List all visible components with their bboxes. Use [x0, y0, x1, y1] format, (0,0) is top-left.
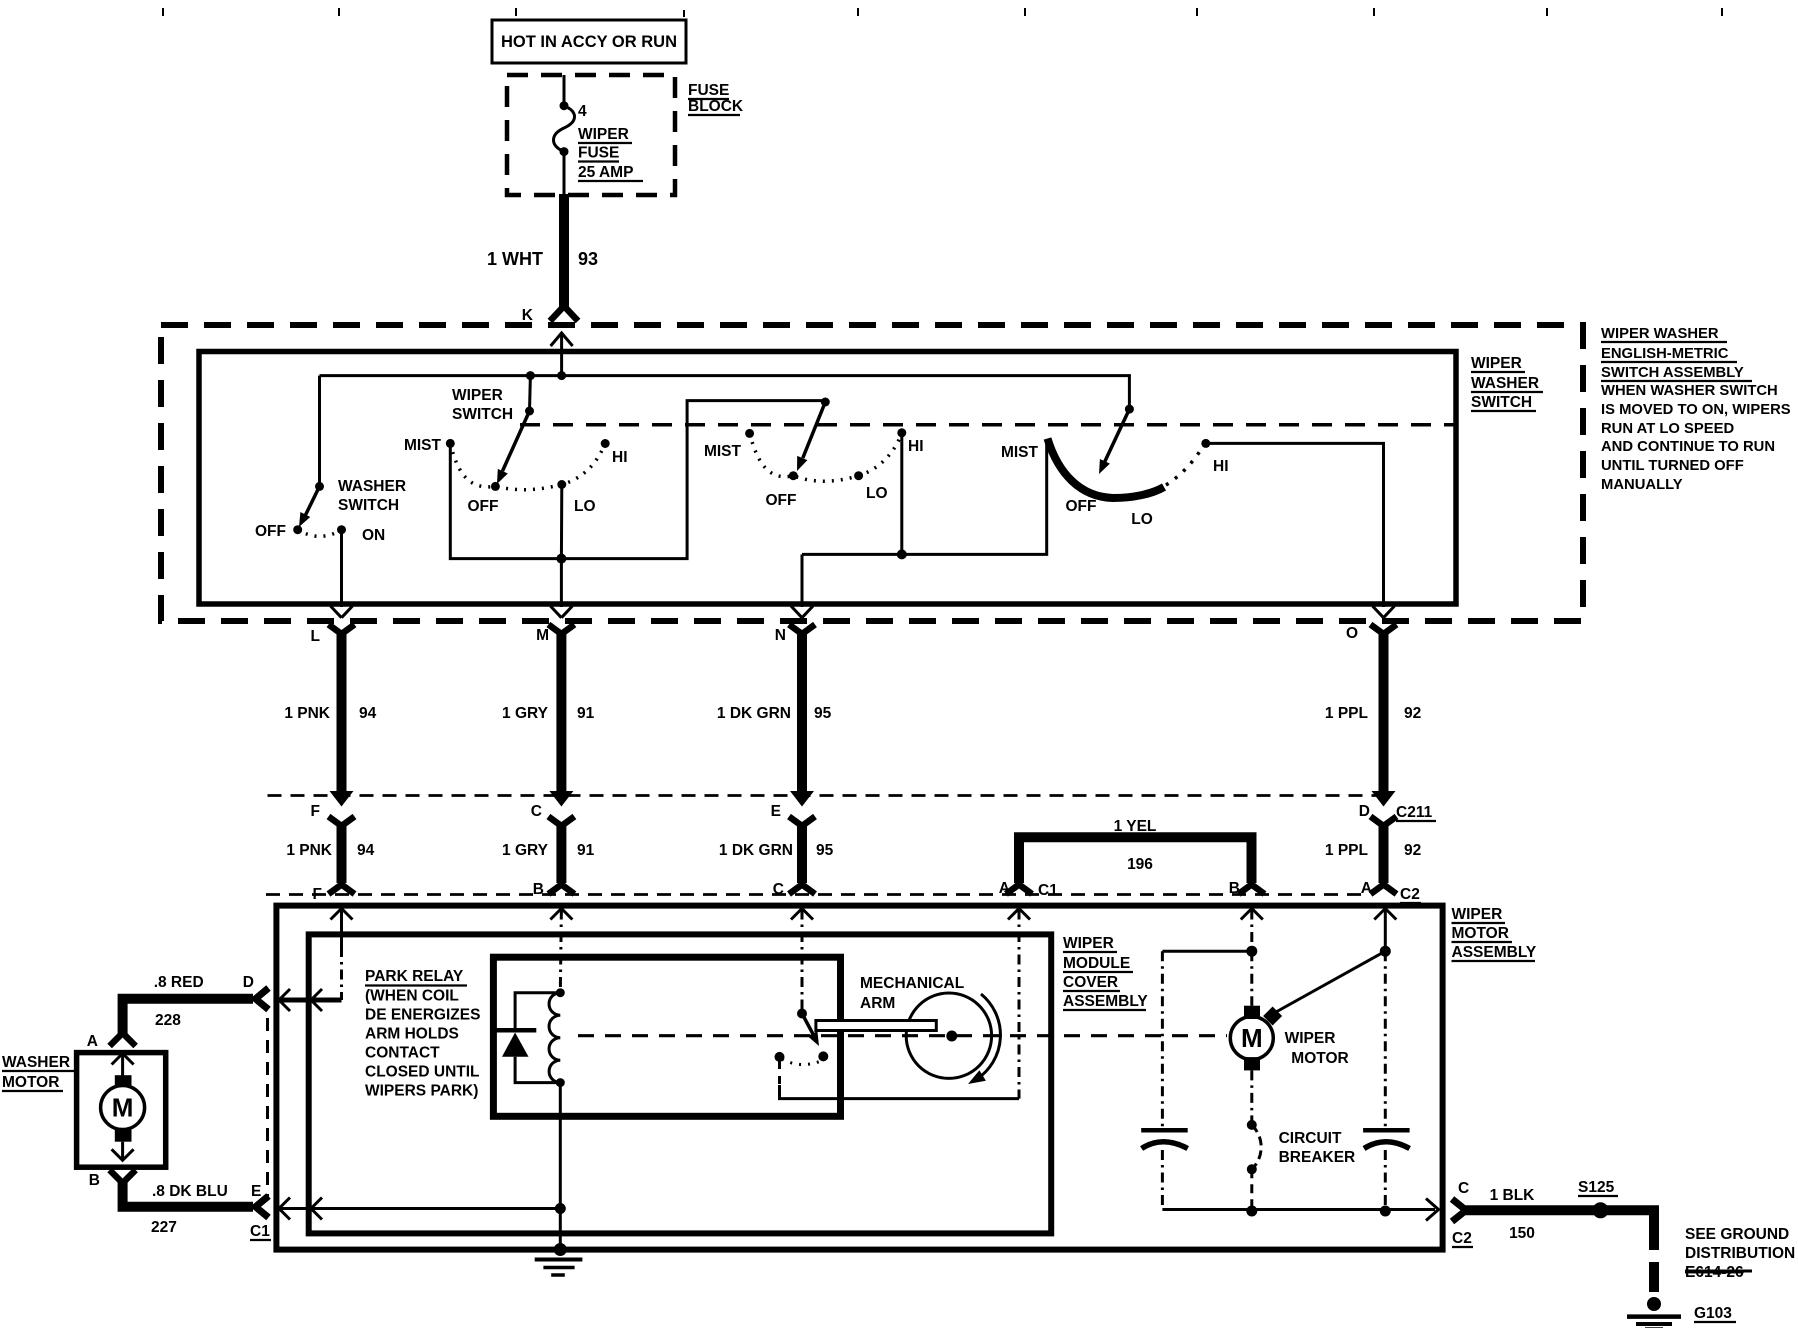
pin B terminal arrow [550, 909, 572, 920]
svg-text:91: 91 [577, 705, 595, 722]
pin D feed wire [276, 998, 341, 1003]
svg-text:93: 93 [578, 249, 598, 269]
svg-text:1 DK GRN: 1 DK GRN [717, 705, 791, 722]
park contact right [818, 1051, 828, 1061]
svg-text:WIPER WASHER: WIPER WASHER [1601, 326, 1719, 342]
svg-text:L: L [311, 628, 320, 645]
supply bus wire [320, 376, 1130, 410]
svg-text:1 DK GRN: 1 DK GRN [719, 842, 793, 859]
wire 1 PNK 94 (upper) [337, 632, 347, 793]
svg-text:WIPER: WIPER [1285, 1030, 1336, 1047]
svg-text:WIPER: WIPER [1471, 355, 1522, 372]
connector C2 harness [1452, 1199, 1466, 1222]
park contact left [775, 1052, 785, 1062]
svg-text:MOTOR: MOTOR [1452, 925, 1509, 942]
svg-text:1 WHT: 1 WHT [487, 249, 543, 269]
svg-text:SEE GROUND: SEE GROUND [1685, 1226, 1789, 1243]
svg-text:HI: HI [908, 438, 924, 455]
ground lead dashed [1649, 1262, 1659, 1292]
svg-text:HI: HI [1213, 458, 1229, 475]
switch 2 travel arc [750, 433, 902, 481]
switch 1 LO contact [557, 480, 566, 489]
svg-text:94: 94 [359, 705, 377, 722]
svg-text:227: 227 [151, 1219, 177, 1236]
switch 1 travel arc [450, 443, 605, 489]
wiper switch 2 pivot [821, 398, 830, 407]
node at K entry [557, 371, 566, 380]
svg-text:C2: C2 [1400, 886, 1420, 903]
wiper switch 2 arm [803, 402, 826, 458]
svg-text:S125: S125 [1578, 1179, 1615, 1196]
svg-text:1 YEL: 1 YEL [1114, 818, 1157, 835]
svg-text:DISTRIBUTION: DISTRIBUTION [1685, 1245, 1795, 1262]
washer motor bottom terminal arrow [112, 1149, 134, 1160]
switch 1 MIST contact [446, 439, 455, 448]
svg-text:RUN AT LO SPEED: RUN AT LO SPEED [1601, 421, 1734, 437]
relay coil to ground wire [559, 1083, 562, 1209]
switch 2 OFF contact [789, 471, 798, 480]
node at washer switch tap [526, 371, 535, 380]
svg-text:A: A [1361, 880, 1372, 897]
svg-text:MIST: MIST [404, 437, 442, 454]
motor brush bottom [1244, 1057, 1260, 1070]
svg-text:25 AMP: 25 AMP [578, 164, 633, 181]
washer switch OFF contact [293, 525, 302, 534]
pin C terminal arrow [791, 909, 813, 920]
wire 1 PNK 94 (lower) [337, 824, 347, 883]
connector D chevron [256, 988, 269, 1010]
svg-text:95: 95 [816, 842, 834, 859]
wire N junction run [802, 441, 1047, 554]
pin F terminal arrow [331, 909, 353, 920]
svg-text:E: E [771, 803, 781, 820]
wiper washer switch inner box [199, 352, 1456, 605]
svg-text:MOTOR: MOTOR [1291, 1050, 1348, 1067]
svg-text:WASHER: WASHER [2, 1054, 70, 1071]
wire 1 GRY 91 (upper) [556, 632, 566, 793]
diode to coil bottom wire [515, 1057, 560, 1083]
svg-text:UNTIL TURNED OFF: UNTIL TURNED OFF [1601, 458, 1744, 474]
pin N exit arrow [791, 606, 813, 618]
switch 3 travel arc to HI [1166, 446, 1203, 485]
ground bus wire to pin C [1162, 1208, 1435, 1211]
pin E wall arrows [279, 1198, 290, 1220]
park contact fixed [797, 1009, 807, 1019]
washer motor brush top [115, 1075, 132, 1086]
pin E/C1 wire [276, 1207, 560, 1210]
svg-text:OFF: OFF [1066, 498, 1097, 515]
fuse block dashed box [507, 75, 675, 195]
ground G103 [1647, 1297, 1661, 1311]
svg-text:1 PNK: 1 PNK [284, 705, 330, 722]
svg-text:ARM HOLDS: ARM HOLDS [365, 1026, 459, 1043]
wiper switch 1 arm [503, 411, 530, 471]
svg-text:228: 228 [155, 1012, 181, 1029]
ground wire to case [559, 1209, 562, 1250]
mechanical arm bar [816, 1021, 936, 1031]
wire 1 YEL 196 jumper [1019, 837, 1252, 883]
svg-text:WHEN WASHER SWITCH: WHEN WASHER SWITCH [1601, 383, 1778, 399]
wire ON to pin L [340, 530, 343, 607]
wire breaker to ground bus [1250, 1169, 1253, 1211]
washer switch ON contact [337, 525, 346, 534]
node capacitor 2 ground [1380, 1206, 1391, 1217]
svg-text:B: B [89, 1172, 100, 1189]
connector C211 socket C [548, 817, 574, 827]
washer motor M1 [101, 1086, 145, 1130]
svg-text:MECHANICAL: MECHANICAL [860, 975, 964, 992]
pin M exit arrow [550, 606, 572, 618]
switch 1 HI contact [601, 439, 610, 448]
capacitor 2 lower lead [1384, 1150, 1387, 1210]
washer switch travel arc [298, 530, 342, 537]
svg-text:C1: C1 [1038, 882, 1058, 899]
svg-text:.8 DK BLU: .8 DK BLU [152, 1183, 228, 1200]
switch 3 closed wiper arc (LO engaged) [1048, 439, 1165, 499]
washer motor brush bottom [115, 1129, 132, 1142]
wire .8 DK BLU 227 [123, 1181, 253, 1207]
svg-text:MANUALLY: MANUALLY [1601, 477, 1683, 493]
svg-text:ARM: ARM [860, 995, 895, 1012]
svg-text:4: 4 [578, 103, 587, 120]
svg-text:LO: LO [574, 498, 596, 515]
svg-text:LO: LO [866, 485, 888, 502]
svg-text:BREAKER: BREAKER [1279, 1149, 1356, 1166]
pin L exit arrow [331, 606, 353, 618]
crank center pin [946, 1031, 957, 1042]
svg-text:150: 150 [1509, 1225, 1535, 1242]
pin D wall arrows [279, 989, 290, 1011]
svg-text:196: 196 [1127, 856, 1153, 873]
svg-text:ON: ON [362, 527, 385, 544]
svg-text:IS MOVED TO ON, WIPERS: IS MOVED TO ON, WIPERS [1601, 402, 1791, 418]
svg-text:HOT IN ACCY OR RUN: HOT IN ACCY OR RUN [501, 33, 677, 51]
svg-text:AND CONTINUE TO RUN: AND CONTINUE TO RUN [1601, 439, 1775, 455]
circuit breaker CB [1247, 1120, 1257, 1130]
pin B connector chevron [110, 1170, 136, 1183]
mechanical arm crank circle [906, 993, 991, 1078]
switch position dashed line [520, 423, 1454, 427]
connector C211 socket D [1371, 817, 1397, 827]
wire A junction to motor armature [1276, 951, 1385, 1012]
wire pin C to park contact [801, 910, 804, 1014]
svg-text:WIPER: WIPER [578, 126, 629, 143]
svg-text:ASSEMBLY: ASSEMBLY [1063, 993, 1148, 1010]
wire 1 PPL 92 (upper) [1379, 632, 1389, 793]
motor brush top [1244, 1006, 1260, 1019]
wiper switch 1 feed wire [528, 376, 532, 411]
wiper motor assembly box [276, 906, 1442, 1250]
crank rotation arrow [977, 994, 1000, 1079]
power source label HOT IN ACCY OR RUN [492, 20, 686, 63]
svg-text:D: D [1359, 803, 1370, 820]
washer switch pivot [315, 482, 324, 491]
svg-text:WIPER: WIPER [1452, 906, 1503, 923]
wire B junction to motor brush [1250, 951, 1253, 1006]
wire to pin N [801, 554, 804, 607]
relay coil [556, 988, 565, 997]
pin C exit arrow [1426, 1199, 1439, 1221]
park relay box [493, 957, 840, 1116]
wire MIST1 to LO1 junction [450, 443, 561, 558]
svg-text:OFF: OFF [255, 523, 286, 540]
svg-text:N: N [775, 627, 786, 644]
pin B/C2 terminal arrow [1241, 909, 1263, 920]
wiper module cover assembly box [309, 934, 1051, 1233]
connector C211 dashed line [268, 794, 1384, 797]
connector dashed divider [266, 1018, 269, 1198]
node A junction [1380, 946, 1391, 957]
svg-text:C1: C1 [250, 1223, 270, 1240]
wire 1 DK GRN 95 (upper) [797, 632, 807, 793]
svg-text:PARK RELAY: PARK RELAY [365, 968, 464, 985]
wire pin A/C1 to park contact arm [1018, 910, 1021, 1099]
svg-text:D: D [243, 974, 254, 991]
washer motor box [77, 1053, 166, 1168]
wire junction to pin M [560, 559, 563, 607]
pin K terminal arrow [551, 333, 573, 346]
svg-text:WIPERS PARK): WIPERS PARK) [365, 1083, 478, 1100]
pin A connector chevron [110, 1033, 136, 1046]
svg-text:CONTACT: CONTACT [365, 1045, 440, 1062]
pin N harness connector [789, 625, 815, 635]
svg-text:91: 91 [577, 842, 595, 859]
wire pin A down to junction [1384, 910, 1387, 952]
svg-text:FUSE: FUSE [688, 82, 729, 99]
wire park contact to pin A [778, 1061, 781, 1085]
svg-text:C2: C2 [1452, 1230, 1472, 1247]
pin L harness connector [329, 625, 355, 635]
node M junction [556, 554, 566, 564]
page tick marks [163, 8, 1722, 17]
wire M junction to switch 2 arm [561, 401, 825, 559]
svg-text:HI: HI [612, 449, 628, 466]
pin M harness connector [548, 625, 574, 635]
svg-text:ENGLISH-METRIC: ENGLISH-METRIC [1601, 346, 1729, 362]
svg-text:1 GRY: 1 GRY [502, 842, 549, 859]
motor connector dashed line [266, 893, 1364, 896]
washer motor bottom lead [121, 1142, 124, 1160]
switch 1 OFF contact [491, 482, 500, 491]
svg-text:MODULE: MODULE [1063, 955, 1130, 972]
park relay dashed link line [578, 1034, 1227, 1037]
switch 3 HI contact [1201, 439, 1210, 448]
svg-text:C: C [1458, 1180, 1469, 1197]
wire .8 RED 228 [123, 999, 253, 1035]
svg-text:1 BLK: 1 BLK [1490, 1187, 1536, 1204]
wire pin F to pin D feed [340, 947, 343, 1000]
connector C211 socket E [789, 817, 815, 827]
svg-text:A: A [87, 1033, 98, 1050]
svg-text:M: M [536, 627, 549, 644]
svg-text:95: 95 [814, 705, 832, 722]
svg-text:O: O [1346, 625, 1358, 642]
capacitor C1f plates [1141, 1128, 1188, 1133]
svg-text:1 GRY: 1 GRY [502, 705, 549, 722]
svg-text:MOTOR: MOTOR [2, 1074, 59, 1091]
svg-text:M: M [112, 1093, 134, 1123]
node breaker ground [1246, 1206, 1257, 1217]
svg-text:COVER: COVER [1063, 974, 1118, 991]
ground G chassis [554, 1243, 567, 1256]
pin A/C1 terminal arrow [1008, 909, 1030, 920]
pin A/C2 terminal arrow [1374, 909, 1396, 920]
svg-text:G103: G103 [1694, 1305, 1732, 1322]
svg-text:BLOCK: BLOCK [688, 98, 744, 115]
wire 1 PPL 92 (lower) [1379, 824, 1389, 883]
wire into fuse [563, 75, 566, 105]
svg-text:FUSE: FUSE [578, 145, 619, 162]
motor armature terminal diamond [1263, 1007, 1282, 1026]
svg-text:MIST: MIST [704, 443, 742, 460]
connector E chevron [256, 1196, 269, 1218]
svg-text:SWITCH: SWITCH [452, 406, 513, 423]
node coil ground junction [555, 1203, 566, 1214]
switch 2 MIST contact [745, 429, 754, 438]
svg-text:SWITCH: SWITCH [1471, 394, 1532, 411]
park contact travel dots [782, 1059, 821, 1065]
svg-text:OFF: OFF [766, 492, 797, 509]
svg-text:E: E [251, 1183, 261, 1200]
switch 2 HI contact [897, 428, 906, 437]
svg-text:C211: C211 [1396, 804, 1433, 821]
wire HI2 down [900, 433, 903, 555]
svg-text:1 PNK: 1 PNK [286, 842, 332, 859]
wire LO1 down [560, 485, 563, 559]
node N junction [897, 549, 907, 559]
wire B junction to capacitor 1 [1162, 950, 1251, 953]
wiper motor M2 [1230, 1017, 1273, 1060]
svg-text:SWITCH ASSEMBLY: SWITCH ASSEMBLY [1601, 365, 1744, 381]
svg-text:ASSEMBLY: ASSEMBLY [1452, 944, 1537, 961]
fuse F4 WIPER FUSE 25 AMP [560, 101, 569, 110]
wiper switch 3 arm [1105, 409, 1130, 462]
wire motor to circuit breaker [1250, 1070, 1253, 1125]
svg-text:C: C [531, 803, 542, 820]
wire 1 WHT 93 [559, 194, 569, 308]
svg-text:1 PPL: 1 PPL [1325, 705, 1368, 722]
svg-text:92: 92 [1404, 705, 1421, 722]
capacitor C2f plates [1363, 1128, 1410, 1133]
park relay moving arm [802, 1014, 814, 1036]
svg-text:92: 92 [1404, 842, 1421, 859]
diode to coil top wire [515, 993, 560, 1031]
wire HI3 to pin O [1206, 443, 1384, 607]
svg-text:WASHER: WASHER [338, 478, 406, 495]
wiper washer switch assembly outer dashed box [161, 325, 1583, 621]
wire 1 BLK 150 [1464, 1210, 1654, 1250]
connector K (harness side chevron) [550, 306, 578, 321]
wire 1 GRY 91 (lower) [556, 824, 566, 883]
svg-text:M: M [1241, 1023, 1263, 1053]
wire pin B to relay coil [560, 910, 561, 993]
svg-text:.8 RED: .8 RED [154, 974, 204, 991]
washer switch feed wire [318, 376, 321, 487]
wiper switch 3 pivot [1125, 405, 1134, 414]
svg-text:WIPER: WIPER [452, 387, 503, 404]
connector C211 socket F [329, 817, 355, 827]
svg-text:F: F [311, 803, 320, 820]
svg-text:LO: LO [1131, 511, 1153, 528]
svg-text:CLOSED UNTIL: CLOSED UNTIL [365, 1064, 480, 1081]
wire 1 DK GRN 95 (lower) [797, 824, 807, 883]
svg-text:MIST: MIST [1001, 444, 1039, 461]
svg-text:WIPER: WIPER [1063, 935, 1114, 952]
wire capacitor 2 drop [1384, 951, 1387, 1128]
svg-text:K: K [522, 307, 534, 324]
pin O exit arrow [1373, 606, 1395, 618]
svg-text:DE ENERGIZES: DE ENERGIZES [365, 1007, 480, 1024]
svg-text:CIRCUIT: CIRCUIT [1279, 1130, 1342, 1147]
svg-text:SWITCH: SWITCH [338, 497, 399, 514]
wire capacitor 1 drop [1161, 951, 1164, 1128]
svg-text:OFF: OFF [468, 498, 499, 515]
wiper switch 1 pivot [525, 407, 534, 416]
capacitor 1 lower lead [1161, 1150, 1164, 1210]
svg-text:94: 94 [357, 842, 375, 859]
svg-text:WASHER: WASHER [1471, 375, 1539, 392]
wire pin B down to junction [1250, 910, 1253, 952]
switch 2 LO contact [854, 471, 863, 480]
pin O harness connector [1371, 625, 1397, 635]
diode CR1 [494, 1028, 536, 1033]
splice S125 [1593, 1202, 1609, 1218]
svg-text:(WHEN COIL: (WHEN COIL [365, 988, 459, 1005]
svg-text:1 PPL: 1 PPL [1325, 842, 1368, 859]
washer switch arm [306, 486, 320, 515]
washer motor top terminal arrow [112, 1054, 134, 1065]
node B junction [1246, 946, 1257, 957]
